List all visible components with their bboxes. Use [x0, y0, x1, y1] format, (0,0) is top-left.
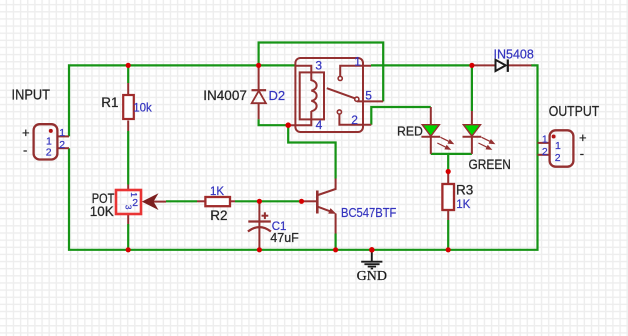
svg-text:-: - [580, 146, 584, 161]
svg-text:2: 2 [555, 152, 561, 164]
svg-text:3: 3 [124, 205, 134, 210]
svg-text:+: + [579, 130, 587, 145]
svg-text:10K: 10K [90, 204, 114, 219]
svg-text:1K: 1K [456, 199, 470, 211]
svg-text:+: + [22, 125, 30, 140]
svg-text:47uF: 47uF [270, 231, 299, 245]
svg-text:INPUT: INPUT [12, 87, 51, 104]
svg-text:1K: 1K [210, 186, 224, 198]
svg-text:BC547BTF: BC547BTF [341, 205, 396, 220]
svg-text:D2: D2 [269, 88, 286, 103]
svg-text:OUTPUT: OUTPUT [549, 103, 599, 120]
svg-text:2: 2 [46, 147, 52, 159]
svg-text:5: 5 [365, 89, 372, 103]
svg-text:2: 2 [542, 146, 548, 158]
svg-text:C1: C1 [272, 221, 287, 233]
svg-text:-: - [23, 143, 27, 158]
svg-text:IN4007: IN4007 [203, 88, 247, 103]
svg-text:R1: R1 [101, 95, 118, 110]
svg-text:1: 1 [59, 127, 65, 139]
svg-text:R3: R3 [456, 183, 473, 198]
svg-text:4: 4 [316, 118, 323, 132]
svg-text:IN5408: IN5408 [494, 47, 534, 61]
svg-text:1: 1 [555, 140, 561, 152]
svg-text:2: 2 [59, 139, 65, 151]
svg-text:RED: RED [397, 124, 423, 139]
svg-text:GND: GND [357, 269, 387, 284]
svg-text:1: 1 [354, 55, 361, 69]
svg-text:1: 1 [46, 135, 52, 147]
svg-text:3: 3 [315, 58, 322, 72]
svg-text:1: 1 [542, 134, 548, 146]
svg-text:GREEN: GREEN [469, 157, 511, 172]
svg-text:R2: R2 [210, 208, 227, 223]
svg-text:10k: 10k [133, 102, 152, 114]
svg-text:2: 2 [351, 113, 358, 127]
